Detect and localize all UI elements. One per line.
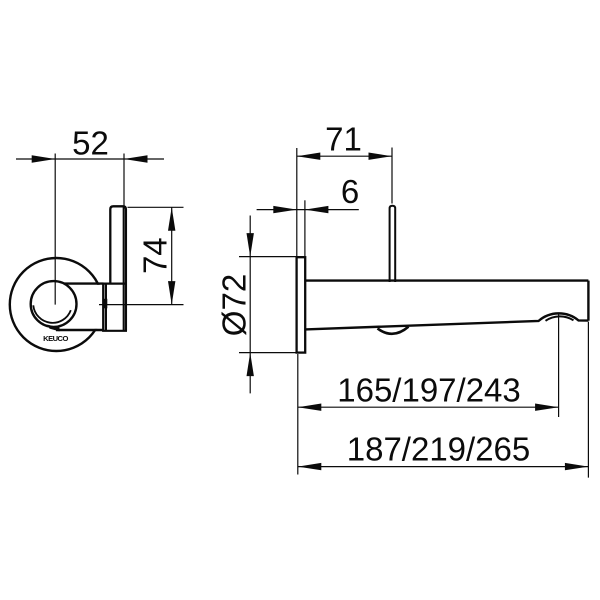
dim 187 ext right [587, 322, 589, 478]
dim 52 ext left [54, 154, 56, 305]
lever bar outline [110, 206, 126, 330]
dim 71 line [297, 155, 392, 157]
dim 72 line [249, 216, 251, 394]
rosette (big circle) [10, 258, 103, 351]
dim 71 ext left [296, 148, 298, 256]
dim 165 line [298, 406, 559, 408]
svg-text:52: 52 [72, 124, 109, 161]
lever bar (side) [110, 206, 126, 330]
control pin [390, 206, 396, 282]
spout top edge [305, 279, 588, 281]
dim 71 arrow right [369, 153, 393, 160]
svg-text:Ø72: Ø72 [216, 274, 253, 336]
svg-text:187/219/265: 187/219/265 [347, 431, 531, 468]
valve body inner edge [105, 284, 107, 331]
valve body left edge [102, 284, 104, 331]
lever front bottom edge [56, 329, 104, 331]
dim 74 arrow top [168, 207, 175, 231]
dim 52 line [16, 158, 164, 160]
svg-text:71: 71 [325, 120, 362, 157]
valve body top edge [102, 283, 127, 285]
spout tip edge [587, 281, 589, 321]
dim 52 ext right [123, 154, 125, 207]
dim 71 ext right [391, 148, 393, 204]
lever front top edge [60, 282, 104, 284]
dim 71 arrow left [297, 153, 321, 160]
lever front fill [64, 285, 104, 329]
dim 72 arrow bottom [247, 353, 254, 377]
dim 165 ext right [558, 314, 560, 417]
centerline through hub [99, 304, 184, 306]
handle hub circle [31, 281, 77, 327]
svg-text:165/197/243: 165/197/243 [337, 372, 521, 409]
dim 72 arrow top [247, 233, 254, 257]
svg-text:KEUCO: KEUCO [43, 334, 68, 343]
dim 52 arrow left [32, 155, 56, 162]
lever bar inner edge [123, 208, 125, 331]
wall plate [297, 257, 306, 352]
dim 165 arrow right [535, 404, 559, 411]
svg-text:6: 6 [341, 173, 359, 210]
dim 6 line [257, 209, 359, 211]
dim 72 ext top [239, 256, 305, 258]
dim 187 arrow left [298, 463, 322, 470]
aerator inner arc [546, 316, 574, 320]
valve bulge under pin [378, 327, 409, 334]
dim 187 arrow right [565, 463, 589, 470]
svg-text:74: 74 [137, 237, 174, 274]
dim 72 ext bottom [239, 352, 297, 354]
dim 165 ext left [297, 354, 299, 475]
hub fill (hides circle arc behind valve body) [102, 283, 127, 332]
dim 6 ext right [304, 200, 306, 256]
spout underside [305, 313, 588, 329]
dim 6 arrow left [273, 206, 297, 213]
dim 6 arrow right [305, 206, 329, 213]
wedge at hub bottom [48, 325, 60, 332]
dim 52 arrow right [124, 155, 148, 162]
dim 74 line [171, 207, 173, 304]
dim 74 arrow bottom [168, 281, 175, 305]
hub inner shading arc [33, 305, 71, 323]
clamp mark [103, 299, 107, 309]
dim 165 arrow left [298, 404, 322, 411]
dim 187 line [298, 466, 589, 468]
dim 74 ext top [128, 206, 184, 208]
valve body bottom edge [102, 330, 127, 332]
